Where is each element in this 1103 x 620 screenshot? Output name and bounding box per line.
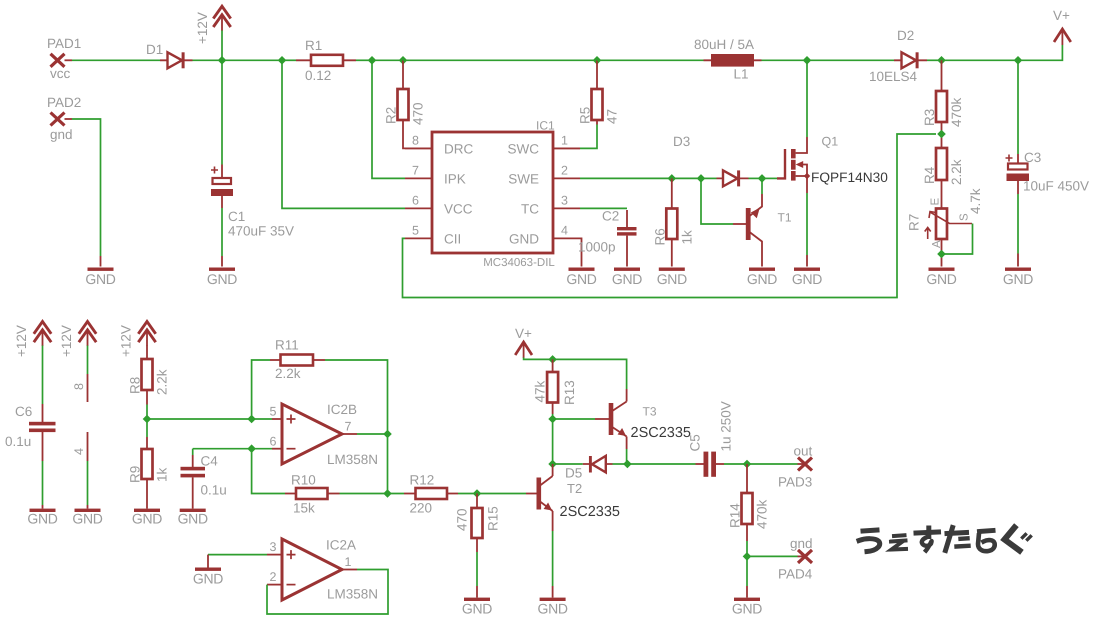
- svg-text:GND: GND: [462, 601, 492, 617]
- svg-text:GND: GND: [207, 271, 237, 287]
- svg-text:PAD3: PAD3: [778, 475, 812, 490]
- svg-text:15k: 15k: [293, 501, 315, 516]
- node junction C3 top: [1014, 56, 1023, 65]
- diode D1: [146, 42, 193, 68]
- wire Q1 source to ground: [806, 193, 808, 255]
- svg-text:R10: R10: [291, 473, 316, 488]
- svg-text:0.1u: 0.1u: [5, 434, 31, 449]
- svg-text:R7: R7: [907, 214, 922, 231]
- svg-text:2.2k: 2.2k: [155, 369, 170, 395]
- svg-text:vcc: vcc: [50, 66, 71, 81]
- resistor R2: [384, 60, 433, 148]
- ground below Q1: [794, 268, 820, 271]
- svg-text:6: 6: [270, 435, 277, 449]
- svg-text:R14: R14: [728, 503, 743, 528]
- svg-text:R8: R8: [128, 377, 143, 394]
- wire R1 to node: [356, 59, 372, 61]
- ground below C4: [180, 509, 206, 512]
- svg-text:47: 47: [605, 109, 620, 124]
- svg-text:IC1: IC1: [536, 119, 555, 133]
- svg-text:SWE: SWE: [508, 172, 539, 187]
- node junction IC2B pin5: [247, 415, 256, 424]
- diode D5: [565, 456, 613, 481]
- svg-text:V+: V+: [1053, 8, 1070, 23]
- svg-text:0.12: 0.12: [305, 68, 331, 83]
- wire T1 collector to node: [761, 178, 763, 194]
- svg-text:D5: D5: [565, 466, 582, 481]
- svg-text:gnd: gnd: [50, 127, 73, 142]
- ground below T2: [540, 598, 566, 601]
- IC1 pin 7 IPK: [405, 164, 466, 187]
- wire PAD1 to D1: [72, 59, 160, 61]
- IC2 power pin 4: [72, 432, 88, 509]
- svg-text:10ELS4: 10ELS4: [869, 69, 918, 84]
- node junction VCC branch: [278, 56, 287, 65]
- svg-text:C5: C5: [688, 434, 703, 451]
- svg-text:T1: T1: [778, 211, 792, 225]
- svg-text:0.1u: 0.1u: [201, 483, 227, 498]
- resistor R9: [128, 419, 170, 509]
- wire pin6 node down to R10: [252, 449, 285, 494]
- svg-text:CII: CII: [444, 232, 461, 247]
- ground below R9: [134, 509, 160, 512]
- svg-text:PAD4: PAD4: [778, 567, 813, 582]
- svg-text:R5: R5: [578, 107, 593, 124]
- svg-text:T3: T3: [643, 405, 657, 419]
- wire node to IC2B pin5: [147, 418, 252, 420]
- node junction IC2B pin6: [247, 444, 256, 453]
- wire base node to T3: [553, 418, 595, 420]
- wire IC1 pin4 to ground: [580, 238, 582, 266]
- supply V+ (top right): [1053, 8, 1071, 45]
- IC1 pin 3 TC: [521, 194, 580, 217]
- op-amp IC2A: [270, 538, 379, 602]
- svg-text:4.7k: 4.7k: [968, 188, 983, 214]
- svg-text:1: 1: [345, 555, 352, 569]
- svg-text:GND: GND: [612, 271, 642, 287]
- svg-text:2SC2335: 2SC2335: [631, 425, 691, 441]
- wire top rail to R5: [403, 59, 597, 61]
- logo text uesutaragu: [859, 528, 1031, 552]
- svg-text:gnd: gnd: [790, 536, 813, 551]
- IC1 pin 2 SWE: [508, 164, 580, 187]
- svg-text:1k: 1k: [679, 230, 694, 245]
- svg-text:FQPF14N30: FQPF14N30: [811, 170, 888, 185]
- svg-text:R4: R4: [922, 166, 937, 184]
- wire R14 to gnd node: [746, 541, 748, 556]
- svg-text:IC2A: IC2A: [326, 538, 356, 553]
- svg-text:E: E: [930, 198, 942, 206]
- svg-text:GND: GND: [792, 271, 822, 287]
- svg-text:+12V: +12V: [14, 325, 29, 357]
- node junction R6 top: [668, 174, 677, 183]
- capacitor C3 10uF 450V: [1006, 60, 1090, 266]
- node junction feedback divider: [937, 130, 946, 139]
- svg-text:C1: C1: [228, 209, 245, 224]
- wire R12 to T2 base: [458, 493, 526, 495]
- transistor Q1 FQPF14N30 mosfet: [777, 135, 888, 194]
- svg-text:C4: C4: [201, 454, 219, 469]
- pad PAD2 (gnd input): [47, 95, 81, 142]
- node junction +12V rail / C1: [218, 56, 227, 65]
- node junction R15 top: [473, 489, 482, 498]
- svg-text:VCC: VCC: [444, 202, 473, 217]
- svg-text:470uF 35V: 470uF 35V: [228, 224, 294, 239]
- svg-text:T2: T2: [567, 481, 582, 496]
- svg-text:C3: C3: [1024, 150, 1041, 165]
- svg-text:7: 7: [412, 164, 419, 178]
- wire to D5: [553, 463, 583, 465]
- svg-text:R9: R9: [128, 466, 143, 483]
- svg-text:V+: V+: [515, 326, 532, 341]
- svg-text:+12V: +12V: [119, 325, 134, 357]
- IC2A pin3 stub: [267, 554, 282, 556]
- node junction PAD4 gnd: [743, 552, 752, 561]
- supply V+ (lower): [515, 326, 532, 358]
- ground below IC1 pin4: [569, 268, 595, 271]
- resistor R8: [128, 346, 170, 405]
- svg-text:4: 4: [72, 448, 86, 455]
- wire R13 to T3 base node: [552, 414, 554, 419]
- node junction T1 base branch: [697, 174, 706, 183]
- svg-text:2: 2: [561, 164, 568, 178]
- wire to R1: [282, 59, 296, 61]
- svg-text:S: S: [959, 213, 971, 221]
- resistor R12: [388, 473, 459, 516]
- wire D5 to T3 emitter node: [613, 463, 628, 465]
- svg-text:DRC: DRC: [444, 142, 473, 157]
- svg-text:IPK: IPK: [444, 172, 466, 187]
- supply +12V (top): [195, 6, 231, 60]
- transistor T1: [746, 194, 792, 267]
- ground below R15: [464, 598, 490, 601]
- IC2A pin2 stub: [267, 584, 282, 586]
- node junction R7 wiper/bottom: [937, 250, 946, 259]
- svg-text:5: 5: [412, 224, 419, 238]
- ground at IC2A pin3: [195, 568, 221, 571]
- svg-text:R12: R12: [410, 473, 435, 488]
- wire D2 to R3 node: [927, 59, 942, 61]
- node junction R8/R9: [143, 415, 152, 424]
- wire gnd node to ground: [746, 556, 748, 586]
- node junction R2 top: [399, 56, 408, 65]
- IC1 pin 5 CII: [405, 224, 461, 247]
- IC2A output pin1 stub: [342, 569, 357, 571]
- wire to C5: [627, 463, 695, 465]
- svg-text:PAD2: PAD2: [47, 95, 81, 110]
- IC1 pin 8 DRC: [405, 134, 473, 157]
- wire to PAD4: [747, 555, 798, 557]
- pad PAD4 (gnd): [778, 536, 813, 582]
- wire feedback CII to divider: [403, 134, 937, 298]
- svg-text:1: 1: [561, 134, 568, 148]
- svg-text:R15: R15: [486, 506, 501, 531]
- wire drain node to D2: [807, 59, 894, 61]
- wire T2 emitter to ground: [552, 531, 554, 586]
- wire to Q1 gate: [762, 177, 777, 179]
- wire to T3 collector: [553, 359, 627, 389]
- IC2B output pin 7: [342, 433, 357, 435]
- svg-text:10uF 450V: 10uF 450V: [1023, 179, 1089, 194]
- svg-text:TC: TC: [521, 202, 539, 217]
- svg-text:4: 4: [561, 224, 568, 238]
- svg-text:+12V: +12V: [59, 325, 74, 357]
- svg-text:GND: GND: [732, 601, 762, 617]
- svg-text:C2: C2: [602, 209, 619, 224]
- ground below IC2 power: [75, 509, 101, 512]
- svg-text:SWC: SWC: [508, 142, 540, 157]
- ground below PAD2: [88, 268, 114, 271]
- svg-text:2SC2335: 2SC2335: [560, 504, 620, 520]
- ground below R6: [659, 268, 685, 271]
- op-amp IC2B: [270, 402, 379, 467]
- svg-text:3: 3: [270, 540, 277, 554]
- transistor T3 2SC2335: [609, 389, 691, 449]
- IC2 power pin 8: [72, 346, 88, 403]
- svg-text:D1: D1: [146, 42, 163, 57]
- wire R7 wiper to bottom: [942, 224, 973, 255]
- resistor R3: [922, 60, 964, 148]
- svg-text:GND: GND: [132, 511, 162, 527]
- svg-text:GND: GND: [1003, 271, 1033, 287]
- svg-text:6: 6: [412, 194, 419, 208]
- capacitor C6 0.1u: [5, 346, 56, 509]
- svg-text:LM358N: LM358N: [327, 587, 378, 602]
- svg-text:R1: R1: [305, 38, 322, 53]
- capacitor C4 0.1u: [181, 449, 227, 509]
- resistor R11 feedback: [252, 338, 325, 420]
- svg-text:R2: R2: [384, 107, 399, 124]
- svg-text:2.2k: 2.2k: [949, 159, 964, 185]
- svg-text:GND: GND: [657, 271, 687, 287]
- svg-text:7: 7: [345, 420, 352, 434]
- resistor R6: [652, 178, 694, 266]
- wire R11 to output column: [325, 360, 388, 434]
- ground below R7: [929, 268, 955, 271]
- wire pin6 stub: [252, 448, 272, 450]
- resistor R14 470k: [728, 464, 770, 541]
- svg-text:GND: GND: [509, 232, 539, 247]
- node junction T2 collector: [548, 460, 557, 469]
- ground below C1: [209, 268, 235, 271]
- resistor R13 47k: [533, 359, 578, 414]
- node junction R1 out / IPK: [368, 56, 377, 65]
- diode D2 10ELS4: [869, 28, 927, 84]
- wire along top rail: [372, 59, 403, 61]
- svg-text:8: 8: [412, 134, 419, 148]
- wire C4 to IC2B pin6: [193, 448, 252, 450]
- wire base node down to D5 row: [552, 419, 554, 464]
- svg-text:+12V: +12V: [195, 12, 210, 44]
- wire R5 to IC1 pin 1 SWC: [580, 125, 597, 149]
- IC1 pin 6 VCC: [405, 194, 473, 217]
- svg-text:1u 250V: 1u 250V: [719, 401, 734, 451]
- svg-text:R13: R13: [562, 380, 577, 405]
- svg-text:GND: GND: [72, 511, 102, 527]
- svg-text:Q1: Q1: [822, 135, 839, 149]
- inductor L1 80uH / 5A: [694, 37, 762, 82]
- IC U1 MC34063-DIL box: [432, 119, 555, 270]
- supply +12V (IC2 power): [59, 322, 96, 358]
- wire V+ to R13 node: [524, 358, 553, 360]
- svg-text:470: 470: [411, 102, 426, 125]
- wire L1 to drain node: [762, 59, 808, 61]
- wire to T1 base branch: [672, 177, 701, 179]
- svg-text:R3: R3: [922, 109, 937, 126]
- svg-text:GND: GND: [85, 271, 115, 287]
- svg-text:3: 3: [561, 194, 568, 208]
- capacitor C1 470uF 35V: [211, 60, 294, 266]
- svg-text:2: 2: [270, 570, 277, 584]
- supply +12V (C6 branch): [14, 322, 51, 358]
- svg-text:PAD1: PAD1: [47, 36, 81, 51]
- node junction R13 top: [548, 355, 557, 364]
- wire IC2A feedback loop: [267, 570, 388, 615]
- svg-text:GND: GND: [27, 511, 57, 527]
- ground below R14: [734, 598, 760, 601]
- svg-text:GND: GND: [926, 271, 956, 287]
- svg-text:R11: R11: [275, 338, 299, 353]
- trimpot R7 4.7k: [907, 188, 984, 266]
- wire VCC branch down to IC1 pin 6: [282, 60, 405, 208]
- node junction output pin7: [383, 430, 392, 439]
- wire SWE rail: [580, 177, 672, 179]
- svg-text:220: 220: [410, 501, 433, 516]
- svg-text:GND: GND: [178, 511, 208, 527]
- ground below C2: [614, 268, 640, 271]
- ground below C6: [30, 509, 56, 512]
- wire D3 to T1 collector node: [749, 177, 763, 179]
- resistor R15: [455, 494, 501, 553]
- ground below T1: [749, 268, 775, 271]
- svg-text:47k: 47k: [533, 380, 548, 402]
- IC1 pin 1 SWC: [508, 134, 581, 157]
- node junction R3 top / V+ rail: [937, 56, 946, 65]
- wire pin3 to ground: [208, 554, 267, 556]
- wire R10 to node: [340, 493, 388, 495]
- svg-text:80uH / 5A: 80uH / 5A: [694, 37, 754, 52]
- svg-text:470k: 470k: [755, 499, 770, 529]
- resistor R1: [296, 38, 356, 83]
- capacitor C5 1u 250V: [688, 401, 734, 477]
- node junction T3 base: [548, 415, 557, 424]
- resistor R4: [922, 148, 964, 209]
- wire R8 to node: [146, 405, 148, 420]
- svg-text:GND: GND: [747, 271, 777, 287]
- svg-text:1k: 1k: [155, 467, 170, 482]
- pad PAD1 (vcc input): [47, 36, 81, 81]
- node junction R5 top: [593, 56, 602, 65]
- svg-text:1000p: 1000p: [578, 240, 616, 255]
- resistor R10: [285, 473, 340, 516]
- wire C5 to out node: [724, 463, 747, 465]
- IC1 pin 4 GND: [509, 224, 580, 247]
- diode D3: [673, 134, 749, 186]
- svg-text:GND: GND: [566, 271, 596, 287]
- svg-text:IC2B: IC2B: [327, 402, 357, 417]
- ground below C3: [1005, 268, 1031, 271]
- node junction out / R14: [743, 460, 752, 469]
- svg-text:D2: D2: [897, 28, 914, 43]
- svg-text:L1: L1: [734, 67, 749, 82]
- wire to PAD3: [747, 463, 798, 465]
- wire to V+ arrow: [1018, 45, 1062, 60]
- resistor R5: [578, 60, 620, 124]
- wire Q1 drain up: [806, 60, 808, 137]
- node junction R10/R12: [383, 489, 392, 498]
- wire to D3: [701, 177, 717, 179]
- svg-text:C6: C6: [15, 404, 32, 419]
- svg-text:2.2k: 2.2k: [275, 366, 301, 381]
- svg-text:out: out: [794, 444, 813, 459]
- wire to C3 node: [942, 59, 1019, 61]
- wire +12V node to VCC branch: [222, 59, 282, 61]
- wire output column down: [387, 434, 389, 494]
- wire T3 emitter to D5 node: [626, 449, 628, 464]
- svg-text:470: 470: [455, 508, 470, 531]
- wire TC pin to C2: [580, 207, 627, 209]
- node junction T1 collector / gate: [758, 174, 767, 183]
- wire top rail to L1: [597, 59, 704, 61]
- supply +12V (R8 branch): [119, 322, 156, 358]
- svg-text:8: 8: [72, 383, 86, 390]
- svg-text:MC34063-DIL: MC34063-DIL: [483, 257, 555, 269]
- wire pin5 stub: [252, 418, 272, 420]
- wire R15 to ground: [476, 552, 478, 586]
- svg-text:LM358N: LM358N: [327, 452, 378, 467]
- wire PAD2 to ground: [72, 119, 101, 256]
- node junction Q1 drain: [803, 56, 812, 65]
- wire D1 to +12V node: [193, 59, 223, 61]
- svg-text:470k: 470k: [949, 97, 964, 127]
- capacitor C2 1000p: [578, 209, 637, 267]
- pad PAD3 (out): [778, 444, 813, 490]
- wire T1 base loop: [701, 178, 733, 224]
- wire down to IC1 pin 7 IPK: [372, 60, 405, 178]
- svg-text:5: 5: [270, 405, 277, 419]
- node junction T3 emitter / out: [623, 460, 632, 469]
- svg-text:D3: D3: [673, 134, 690, 149]
- transistor T2 2SC2335: [537, 464, 620, 531]
- svg-text:GND: GND: [193, 571, 223, 587]
- svg-text:GND: GND: [537, 601, 567, 617]
- svg-text:R6: R6: [652, 228, 667, 245]
